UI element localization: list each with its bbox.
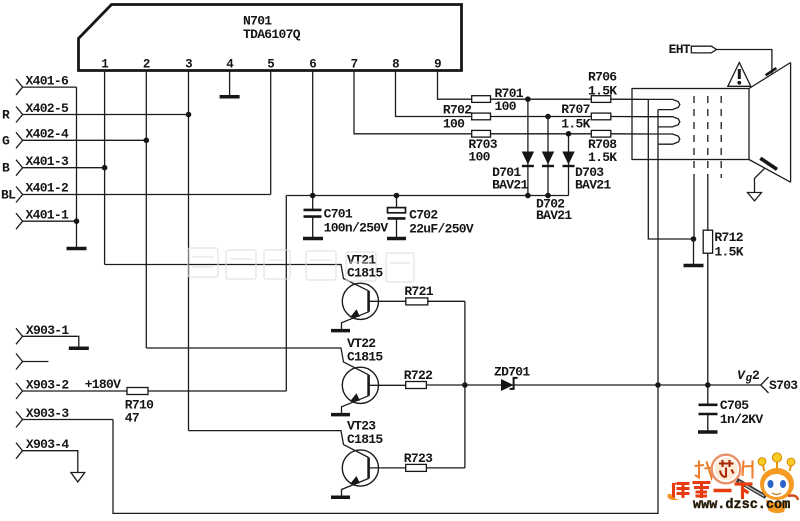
anode coating tick (top) bbox=[766, 68, 777, 75]
connector X401-2 (BL input) bbox=[16, 187, 271, 203]
CRT cathode 1 bbox=[648, 99, 680, 109]
ground (left bus) bbox=[67, 247, 87, 251]
node heater/G1 bbox=[691, 236, 697, 242]
svg-text:C1815: C1815 bbox=[347, 266, 383, 281]
wire pin5 vertical to BL line bbox=[270, 71, 272, 195]
svg-text:2: 2 bbox=[752, 368, 760, 383]
watermark 维库一下 bbox=[668, 483, 753, 501]
svg-text:1.5K: 1.5K bbox=[588, 84, 617, 99]
CRT grid G1 dashed bbox=[693, 96, 695, 176]
CRT cathode 3 bbox=[648, 134, 680, 144]
capacitor C705 bbox=[699, 385, 718, 431]
svg-text:BAV21: BAV21 bbox=[536, 208, 572, 223]
wire VT23 base from pin3 row bbox=[189, 431, 369, 458]
ground (IC pin 4) bbox=[220, 95, 240, 99]
svg-text:100: 100 bbox=[495, 99, 517, 114]
ground (CRT bell, open triangle) bbox=[748, 193, 762, 201]
wire pin2 vertical to VT22 base row bbox=[145, 71, 147, 349]
connector X402-5 (R input) bbox=[16, 107, 189, 123]
svg-text:R: R bbox=[2, 108, 10, 123]
CRT neck box bbox=[632, 89, 749, 160]
svg-text:C705: C705 bbox=[720, 398, 749, 413]
capacitor C701 bbox=[304, 196, 322, 238]
node G line / pin2 bbox=[144, 138, 150, 144]
supply rail y=195.5 bbox=[286, 195, 568, 197]
node pin6/rail bbox=[310, 193, 316, 199]
svg-text:TDA6107Q: TDA6107Q bbox=[243, 27, 301, 42]
svg-text:X401-2: X401-2 bbox=[26, 181, 70, 196]
diode D703 BAV21 bbox=[562, 131, 574, 196]
CRT grid G2 dashed bbox=[707, 96, 709, 176]
node C702/rail bbox=[394, 193, 400, 199]
wire pin8 vertical and R702 row bbox=[396, 71, 472, 117]
node R line / pin3 bbox=[186, 112, 192, 118]
ground (C701) bbox=[303, 237, 323, 241]
svg-text:C1815: C1815 bbox=[347, 350, 383, 365]
resistor R723 bbox=[406, 464, 465, 471]
node heater-B / Vg2 line bbox=[655, 382, 661, 388]
wire Vg2 node line bbox=[426, 384, 760, 386]
svg-text:R712: R712 bbox=[714, 230, 743, 245]
svg-text:7: 7 bbox=[351, 58, 358, 72]
ground (X903-4, open triangle) bbox=[71, 473, 85, 483]
svg-text:8: 8 bbox=[392, 58, 399, 72]
main wires bbox=[105, 71, 472, 431]
node B line / pin1 bbox=[102, 165, 108, 171]
connector stub (unlabeled) bbox=[16, 354, 48, 370]
anode coating stroke (bottom) bbox=[760, 158, 777, 169]
resistor R706 1.5K bbox=[591, 96, 648, 103]
connector X903-2 (+180V) bbox=[16, 383, 127, 399]
svg-text:5: 5 bbox=[267, 58, 274, 72]
ground (VT22 emitter) bbox=[331, 413, 350, 417]
wire +180V riser bbox=[285, 196, 287, 392]
resistor R708 1.5K bbox=[591, 130, 648, 137]
wire R721/R722/R723 node vertical bbox=[464, 301, 466, 468]
CRT funnel and screen bbox=[749, 63, 791, 183]
svg-text:R707: R707 bbox=[561, 102, 589, 117]
resistor R701 100 bbox=[472, 96, 592, 103]
CRT grid G1 lead bbox=[693, 176, 696, 264]
diode D702 BAV21 bbox=[542, 114, 554, 199]
wire CRT bell to ground bbox=[755, 168, 765, 192]
resistor R707 1.5K bbox=[591, 113, 648, 120]
svg-text:R723: R723 bbox=[404, 451, 433, 466]
ground (VT23 emitter) bbox=[331, 496, 350, 500]
svg-text:22uF/250V: 22uF/250V bbox=[409, 222, 474, 237]
svg-text:100: 100 bbox=[468, 150, 490, 165]
svg-text:S703: S703 bbox=[769, 378, 798, 393]
svg-text:R722: R722 bbox=[404, 368, 433, 383]
svg-text:2: 2 bbox=[143, 58, 150, 72]
svg-text:www.dzsc.com: www.dzsc.com bbox=[693, 498, 790, 513]
wire pin6 vertical to supply rail bbox=[312, 71, 314, 196]
wire pin3 vertical to VT23 base row bbox=[188, 71, 190, 431]
transistor VT21 C1815 bbox=[105, 265, 406, 330]
connector X402-4 (G input) bbox=[16, 132, 146, 148]
svg-text:ZD701: ZD701 bbox=[494, 365, 530, 380]
capacitor C702 (polarized) bbox=[388, 196, 406, 238]
node R72x bbox=[462, 382, 468, 388]
wire left connector ground bus bbox=[76, 87, 78, 247]
svg-text:X903-1: X903-1 bbox=[26, 323, 70, 338]
svg-text:1.5K: 1.5K bbox=[714, 245, 743, 260]
svg-text:+180V: +180V bbox=[85, 377, 121, 392]
resistor R722 bbox=[406, 382, 427, 389]
svg-text:X402-5: X402-5 bbox=[26, 101, 70, 116]
resistor R710 47 bbox=[127, 388, 286, 395]
svg-text:R706: R706 bbox=[588, 70, 617, 85]
svg-text:100n/250V: 100n/250V bbox=[324, 221, 389, 236]
ground (X903-1) bbox=[69, 347, 89, 351]
resistor R702 100 bbox=[472, 113, 592, 120]
ground (C705) bbox=[698, 430, 718, 434]
svg-text:C701: C701 bbox=[324, 207, 353, 222]
warning triangle bbox=[728, 63, 751, 87]
node R712 / C705 bbox=[705, 382, 711, 388]
svg-text:X401-1: X401-1 bbox=[26, 208, 70, 223]
svg-text:BL: BL bbox=[1, 187, 16, 202]
wire VT22 base from pin2 row bbox=[146, 348, 368, 375]
transistor VT22 C1815 bbox=[146, 348, 405, 413]
wire heater B to bottom rail bbox=[113, 385, 658, 513]
resistor R721 bbox=[406, 298, 465, 305]
diode D701 BAV21 bbox=[522, 96, 534, 198]
resistor R712 1.5K bbox=[703, 230, 712, 385]
svg-text:X903-4: X903-4 bbox=[26, 437, 70, 452]
svg-text:1: 1 bbox=[101, 58, 108, 72]
connector X903-4 bbox=[16, 443, 78, 473]
resistor R703 100 bbox=[472, 130, 592, 137]
svg-text:EHT: EHT bbox=[669, 42, 691, 57]
CRT heater lead B bbox=[657, 110, 659, 385]
IC N701 label bbox=[243, 14, 301, 43]
svg-text:BAV21: BAV21 bbox=[492, 178, 528, 193]
svg-text:B: B bbox=[2, 161, 10, 176]
ground (heater/G1) bbox=[684, 264, 704, 268]
svg-text:1n/2KV: 1n/2KV bbox=[720, 412, 764, 427]
svg-text:100: 100 bbox=[443, 117, 465, 132]
wire pin7 vertical and R703 row bbox=[354, 71, 472, 134]
wire VT21 base from pin1 row bbox=[105, 265, 369, 291]
svg-text:BAV21: BAV21 bbox=[575, 178, 611, 193]
svg-text:C1815: C1815 bbox=[347, 432, 383, 447]
wire pin4 ground stub bbox=[229, 71, 231, 96]
svg-text:R702: R702 bbox=[443, 103, 472, 118]
svg-text:R721: R721 bbox=[404, 284, 433, 299]
IC U N701 TDA6107Q body bbox=[79, 5, 462, 71]
connector X401-1 bbox=[16, 213, 77, 229]
svg-text:X401-3: X401-3 bbox=[26, 154, 70, 169]
ground (VT21 emitter) bbox=[331, 329, 350, 333]
wire EHT to anode bbox=[717, 50, 772, 74]
svg-text:47: 47 bbox=[125, 411, 139, 426]
svg-text:X402-4: X402-4 bbox=[26, 127, 70, 142]
connector X903-3 bbox=[16, 412, 113, 428]
connector X401-3 (B input) bbox=[16, 160, 105, 176]
zener diode ZD701 bbox=[501, 378, 518, 391]
node X401-1 / bus bbox=[74, 218, 80, 224]
svg-text:X401-6: X401-6 bbox=[26, 74, 70, 89]
connector X401-6 bbox=[16, 79, 77, 95]
svg-text:1.5K: 1.5K bbox=[561, 117, 590, 132]
wire pin9 vertical and R701 row bbox=[438, 71, 472, 100]
ground (C702) bbox=[387, 237, 406, 241]
svg-text:6: 6 bbox=[309, 58, 316, 72]
CRT cathode 2 bbox=[648, 117, 680, 127]
wire pin1 vertical to VT21 base row bbox=[104, 71, 106, 265]
CRT grid G2 lead to R712 bbox=[707, 176, 709, 230]
svg-text:3: 3 bbox=[185, 58, 192, 72]
watermark mascot bbox=[758, 453, 798, 513]
faint gray watermark (middle) bbox=[188, 248, 414, 282]
CRT heater lead A bbox=[648, 99, 693, 239]
IC pin numbers 1-9 bbox=[101, 58, 441, 72]
svg-text:C702: C702 bbox=[409, 208, 438, 223]
watermark logo 找芯片 magnifier bbox=[695, 455, 767, 497]
connector X903-1 bbox=[16, 328, 79, 346]
CRT grid G3 dashed bbox=[720, 96, 722, 178]
svg-text:G: G bbox=[2, 133, 10, 148]
transistor VT23 C1815 bbox=[189, 431, 406, 496]
connector S703 bbox=[761, 377, 769, 393]
svg-text:1.5K: 1.5K bbox=[588, 150, 617, 165]
node dots upper-left bbox=[74, 112, 192, 224]
svg-text:X903-2: X903-2 bbox=[26, 378, 70, 393]
svg-text:9: 9 bbox=[434, 58, 441, 72]
svg-text:X903-3: X903-3 bbox=[26, 406, 70, 421]
svg-text:4: 4 bbox=[226, 58, 234, 72]
